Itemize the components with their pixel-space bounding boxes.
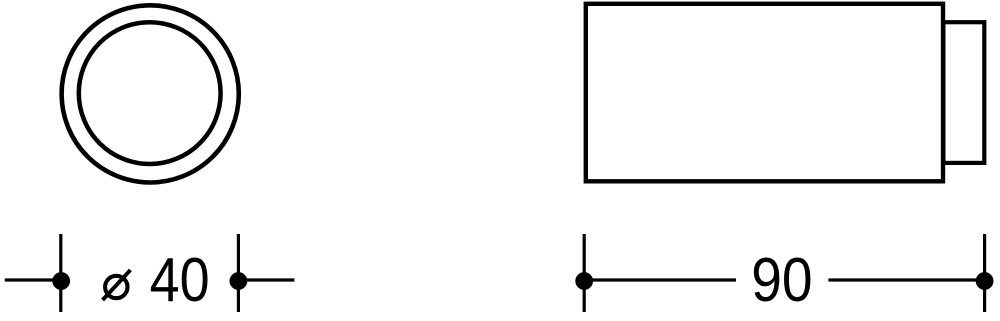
dimension 90: right dot terminator [976,272,994,290]
front view: inner circle [79,22,221,164]
dimension o40: left dot terminator [52,272,70,290]
side view: end cap rectangle [943,22,984,163]
front view: outer circle (o40 tube) [62,5,239,182]
dimension o40: left leader line [5,278,61,281]
dimension 90: right dimension line [828,278,984,281]
dimension 90: left dot terminator [575,272,593,290]
dimension 90: left dimension line [584,278,736,281]
dimension o40: right leader line [238,278,294,281]
dimension o40: right extension line [237,234,240,312]
svg-text:90: 90 [751,246,812,315]
dimension 90: right extension line [983,234,986,312]
svg-text:40: 40 [150,245,210,314]
side view: main body rectangle [586,4,943,182]
dimension o40: left extension line [59,234,62,312]
dimension o40: right dot terminator [230,272,248,290]
dimension o40: diameter symbol slash [103,270,131,300]
dimension o40: diameter symbol circle [105,276,127,298]
dimension 90: left extension line [583,234,586,312]
